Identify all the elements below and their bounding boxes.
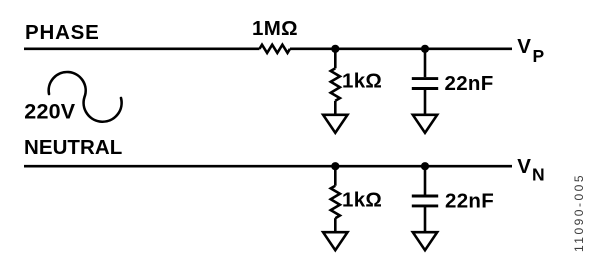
wire stub node to resistor (bottom 1k) <box>334 166 337 186</box>
wire phase left segment <box>24 47 260 50</box>
svg-text:220V: 220V <box>24 99 75 123</box>
ground symbol (bottom 1k) <box>323 232 347 250</box>
svg-text:V: V <box>517 155 531 178</box>
junction node dot (neutral / 22nF) <box>421 162 429 170</box>
wire stub capacitor to ground (top 22nF) <box>424 89 427 115</box>
junction node dot (phase / 22nF) <box>421 45 429 53</box>
resistor 1kohm (bottom) zigzag <box>331 186 340 219</box>
svg-text:V: V <box>517 35 531 58</box>
source 220V sine symbol <box>49 72 122 122</box>
svg-text:22nF: 22nF <box>445 72 494 95</box>
junction node dot (neutral / 1k) <box>331 162 339 170</box>
svg-text:1kΩ: 1kΩ <box>342 70 382 93</box>
svg-text:N: N <box>532 165 545 185</box>
wire stub resistor to ground (bottom 1k) <box>334 218 337 232</box>
resistor 1kohm (top) zigzag <box>331 68 340 101</box>
ground symbol (top 1k) <box>323 115 347 133</box>
svg-text:PHASE: PHASE <box>25 21 100 44</box>
wire stub resistor to ground (top 1k) <box>334 101 337 115</box>
svg-text:1kΩ: 1kΩ <box>342 188 382 211</box>
wire stub node to resistor (top 1k) <box>334 49 337 69</box>
wire neutral <box>24 165 512 168</box>
capacitor 22nF (bottom) plates <box>412 195 438 198</box>
wire stub node to capacitor (top 22nF) <box>424 49 427 77</box>
svg-text:NEUTRAL: NEUTRAL <box>24 136 122 159</box>
resistor 1Mohm zigzag <box>260 45 291 53</box>
wire stub capacitor to ground (bottom 22nF) <box>424 206 427 232</box>
svg-text:22nF: 22nF <box>445 190 494 213</box>
svg-text:P: P <box>533 46 545 66</box>
svg-text:11090-005: 11090-005 <box>572 173 586 252</box>
wire phase right segment <box>290 47 512 50</box>
ground symbol (bottom 22nF) <box>413 232 437 250</box>
wire stub node to capacitor (bottom 22nF) <box>424 166 427 194</box>
svg-text:1MΩ: 1MΩ <box>252 17 298 40</box>
junction node dot (phase / 1k) <box>331 45 339 53</box>
capacitor 22nF (top) plates <box>412 77 438 80</box>
ground symbol (top 22nF) <box>413 115 437 133</box>
